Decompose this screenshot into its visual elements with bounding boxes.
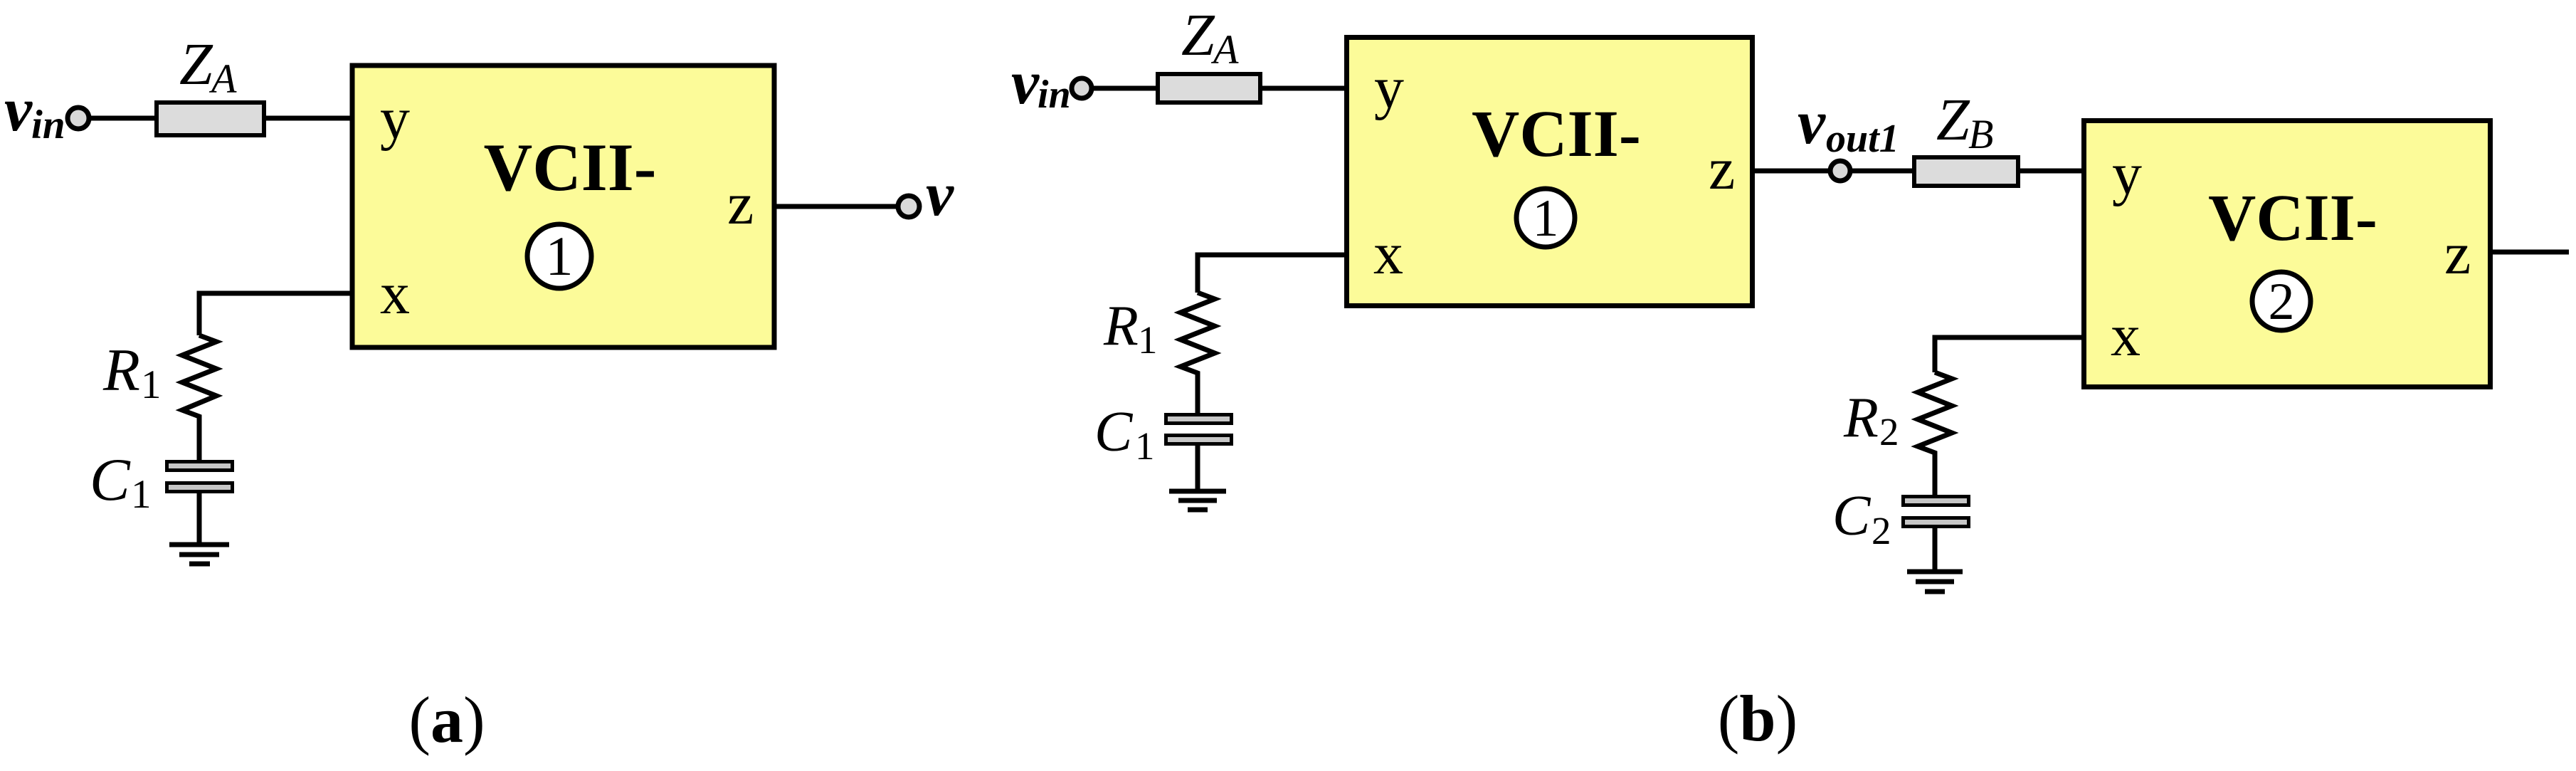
label R2 (b) <box>1843 387 1899 453</box>
label C1 (a) <box>90 446 152 517</box>
svg-text:y: y <box>380 85 410 152</box>
wire ZB to y pin (b2) <box>2018 169 2084 174</box>
svg-text:(b): (b) <box>1718 682 1798 755</box>
ground 1 (b) <box>1169 491 1226 510</box>
terminal vout1 (b) <box>1830 161 1850 181</box>
svg-text:Z: Z <box>1181 2 1215 68</box>
svg-text:in: in <box>1038 73 1071 117</box>
wire x pin (a) <box>199 293 352 335</box>
resistor R1 (b) <box>1181 293 1215 413</box>
ground 2 (b) <box>1907 572 1963 592</box>
wire ZA to y pin (b1) <box>1260 86 1346 91</box>
terminal vin (a) <box>68 107 89 129</box>
svg-text:VCII-: VCII- <box>484 130 657 205</box>
wire ZA to y pin (a) <box>266 116 352 121</box>
svg-text:VCII-: VCII- <box>1472 98 1641 171</box>
wire z to v (a) <box>774 204 909 209</box>
unit circle 1 (b1) <box>1516 189 1575 248</box>
svg-text:y: y <box>2112 141 2142 207</box>
wire x pin (b2) <box>1935 337 2084 372</box>
wire z1 to vout1 (b) <box>1755 169 1841 174</box>
resistor R2 (b) <box>1918 372 1952 495</box>
svg-text:(a): (a) <box>408 683 485 756</box>
svg-text:2: 2 <box>1879 410 1899 453</box>
svg-text:x: x <box>380 261 410 327</box>
svg-text:1: 1 <box>131 472 152 517</box>
svg-text:R: R <box>1843 387 1879 449</box>
svg-text:Z: Z <box>1936 87 1970 153</box>
svg-text:out1: out1 <box>1826 117 1899 161</box>
VCII block U1 (a) <box>352 65 774 347</box>
svg-text:x: x <box>2111 303 2140 369</box>
wire C2 to ground (b) <box>1933 528 1938 572</box>
svg-text:R: R <box>102 337 140 404</box>
svg-text:y: y <box>1374 55 1404 121</box>
wire x pin (b1) <box>1198 255 1346 293</box>
terminal vin (b) <box>1072 78 1092 98</box>
label ZA (a) <box>179 31 237 102</box>
svg-text:z: z <box>2444 221 2471 287</box>
svg-text:v: v <box>1011 48 1040 117</box>
svg-text:z: z <box>727 171 754 237</box>
VCII block U2 (b) <box>2084 121 2491 387</box>
svg-text:VCII-: VCII- <box>2208 182 2377 255</box>
svg-text:x: x <box>1373 221 1403 287</box>
svg-text:1: 1 <box>1135 424 1155 468</box>
wire vin to ZA (b) <box>1082 86 1158 91</box>
svg-text:2: 2 <box>1872 509 1891 552</box>
svg-text:C: C <box>1832 485 1872 547</box>
label R1 (a) <box>102 337 162 407</box>
svg-text:C: C <box>1094 401 1134 463</box>
label ZB (b) <box>1936 87 1993 157</box>
svg-text:1: 1 <box>546 225 574 287</box>
resistor R1 (a) <box>182 335 216 460</box>
wire C1 to ground (a) <box>197 493 202 545</box>
label C2 (b) <box>1832 485 1891 552</box>
label vout1 (b) <box>1798 88 1899 161</box>
svg-text:1: 1 <box>141 362 162 407</box>
svg-text:B: B <box>1968 111 1993 157</box>
svg-text:A: A <box>1210 26 1239 73</box>
impedance ZA (a) <box>157 103 264 135</box>
svg-text:A: A <box>208 56 237 102</box>
label C1 (b) <box>1094 401 1155 468</box>
capacitor C2 (b) <box>1904 497 1969 527</box>
wire z out (b2) <box>2493 250 2569 255</box>
capacitor C1 (a) <box>167 462 233 492</box>
svg-text:1: 1 <box>1533 189 1559 248</box>
terminal v (a) <box>898 196 919 217</box>
svg-text:v: v <box>926 160 954 229</box>
svg-text:2: 2 <box>2269 273 2295 331</box>
VCII block U1 (b) <box>1347 38 1753 306</box>
label vin (a) <box>4 75 65 147</box>
svg-text:v: v <box>4 75 33 145</box>
svg-text:in: in <box>31 103 65 147</box>
impedance ZB (b) <box>1914 157 2018 186</box>
label vin (b) <box>1011 48 1071 117</box>
svg-text:z: z <box>1709 136 1735 202</box>
svg-text:Z: Z <box>179 31 213 98</box>
wire vout1 to ZB (b) <box>1841 169 1914 174</box>
svg-text:v: v <box>1798 88 1826 157</box>
unit circle 2 (b2) <box>2252 272 2311 331</box>
unit circle 1 (a) <box>527 224 591 288</box>
impedance ZA (b) <box>1158 74 1260 103</box>
svg-text:R: R <box>1103 295 1139 357</box>
ground (a) <box>169 545 229 564</box>
svg-text:1: 1 <box>1138 318 1158 362</box>
wire C1 to ground (b) <box>1195 446 1200 491</box>
label R1 (b) <box>1103 295 1158 362</box>
capacitor C1 (b) <box>1166 415 1232 444</box>
label ZA (b) <box>1181 2 1239 73</box>
wire vin to ZA (a) <box>78 116 157 121</box>
svg-text:C: C <box>90 446 131 513</box>
